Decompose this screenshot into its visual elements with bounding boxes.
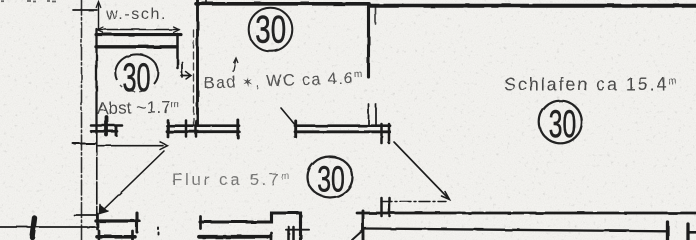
door swing bad — [281, 108, 296, 126]
svg-text:30: 30 — [549, 103, 576, 146]
bottom-center door posts — [287, 227, 290, 240]
schlafen top wall — [369, 4, 696, 8]
bad room top wall — [196, 2, 369, 6]
number 30 flur — [317, 159, 345, 200]
bottom-right wall lower line — [364, 229, 667, 232]
tick on V1 top — [73, 9, 97, 11]
bottom-right wall upper line — [357, 212, 696, 215]
top edge specks — [1, 0, 56, 3]
middle wall left piece — [91, 124, 122, 127]
bad up arrow — [233, 58, 238, 72]
circled 30 abst — [115, 8, 581, 198]
number 30 schlafen — [549, 103, 576, 146]
svg-text:Abst ~1.7m: Abst ~1.7m — [97, 98, 180, 118]
arrow line flur — [98, 145, 163, 147]
svg-text:30: 30 — [255, 8, 286, 52]
bottom dimension line left — [0, 226, 96, 228]
svg-text:Schlafen ca 15.4m: Schlafen ca 15.4m — [504, 75, 679, 95]
door swing diagonal left — [101, 151, 164, 212]
middle wall segment B — [295, 124, 390, 127]
bottom-left wall row 1 — [96, 219, 139, 222]
thick door post tick — [105, 117, 109, 135]
closet top wall 1 — [96, 33, 181, 36]
number 30 bad — [255, 8, 286, 52]
tick on V1 bottom — [74, 214, 97, 216]
circle for 30 schlafen — [539, 101, 582, 144]
bottom-center wall lower — [199, 235, 271, 239]
bottom-right wall left vertical — [362, 211, 365, 240]
entrance door posts — [380, 198, 383, 216]
middle wall segment A — [167, 124, 239, 127]
dimension slash marker — [32, 218, 35, 237]
bottom-left wall row 2 — [97, 235, 135, 239]
big door swing diagonal right — [394, 142, 449, 199]
tick on V1 mid — [73, 143, 96, 145]
svg-text:30: 30 — [317, 159, 345, 200]
segment B right double ticks — [380, 124, 383, 143]
far right wall tick — [686, 224, 689, 240]
top wall stub — [206, 0, 208, 4]
bad room right wall lower — [368, 104, 370, 125]
bad room right wall upper — [367, 7, 370, 77]
axis dash-dot line V1 left — [81, 0, 83, 240]
bad room left wall — [196, 0, 199, 125]
left wall edge V2 — [95, 29, 97, 133]
circle for 30 abst (open at bottom) — [115, 54, 158, 84]
dashed helper vertical near bad wall — [193, 30, 195, 127]
small diagonal at wall base — [352, 231, 362, 240]
closet right wall — [176, 34, 179, 68]
circle for 30 bad — [249, 8, 293, 52]
svg-text:30: 30 — [122, 56, 150, 100]
dash-dot swing line bottom — [381, 201, 446, 203]
small arrow to dashed wall line — [181, 62, 183, 77]
number 30 abst — [122, 56, 150, 100]
colon speck — [157, 228, 159, 230]
handwritten labels — [97, 6, 679, 189]
svg-text:Flur ca 5.7m: Flur ca 5.7m — [172, 170, 292, 189]
closet top wall 2 — [96, 45, 177, 48]
svg-text:w.-sch.: w.-sch. — [105, 6, 167, 23]
dimension line under w.-sch. — [98, 29, 179, 31]
circle for 30 flur — [308, 157, 353, 198]
bottom-center wall upper with step — [200, 213, 301, 240]
dimension vertical with up arrow (w.-sch.) — [98, 3, 100, 30]
